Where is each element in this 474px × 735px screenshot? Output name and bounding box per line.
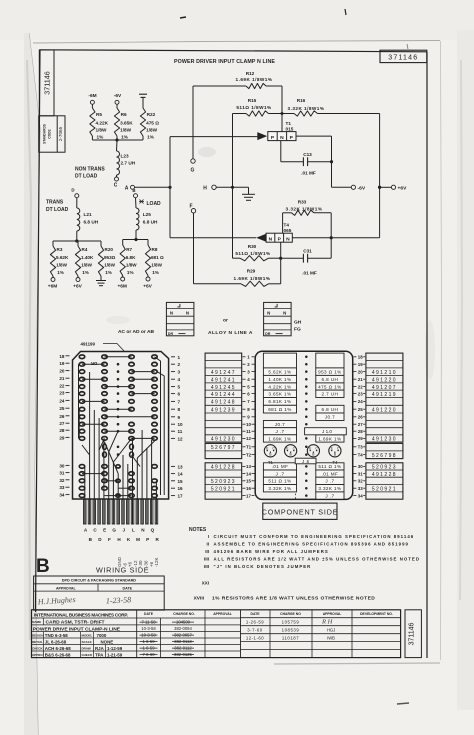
svg-text:Q: Q	[151, 528, 155, 533]
terminal symbol above R22	[139, 93, 147, 95]
component value box left 4.22K 1%	[263, 383, 296, 390]
component board transistor cans	[264, 445, 276, 457]
svg-text:520921: 520921	[211, 486, 236, 492]
part number table B	[366, 353, 403, 442]
svg-text:.01 MF: .01 MF	[322, 471, 339, 476]
svg-text:26: 26	[358, 415, 363, 420]
svg-text:R12: R12	[246, 71, 255, 76]
svg-text:681 Ω: 681 Ω	[151, 255, 164, 260]
svg-text:19: 19	[358, 362, 363, 367]
left loop wire vertical	[169, 137, 171, 238]
wiring board pads column 4	[129, 355, 134, 359]
svg-text:2.7 UH: 2.7 UH	[121, 161, 136, 166]
svg-text:-12K: -12K	[154, 557, 159, 567]
svg-text:POWER DRIVE INPUT CLAMP-N LINE: POWER DRIVE INPUT CLAMP-N LINE	[33, 626, 121, 632]
wiring board traces horizontal	[105, 356, 132, 358]
svg-text:32: 32	[358, 479, 363, 484]
svg-text:16: 16	[178, 486, 184, 491]
svg-text:NAME: NAME	[32, 620, 41, 624]
svg-text:M: M	[136, 537, 140, 542]
svg-text:33: 33	[358, 486, 363, 491]
svg-text:DESIGN: DESIGN	[32, 634, 44, 638]
svg-text:+6V: +6V	[73, 284, 82, 290]
svg-text:.01 MF: .01 MF	[272, 464, 289, 469]
component value box J 1.0 wide	[305, 428, 347, 435]
wire F down to R29	[193, 213, 195, 284]
svg-text:T4: T4	[284, 223, 290, 228]
svg-text:WIRING SIDE: WIRING SIDE	[96, 566, 149, 575]
svg-text:DATE: DATE	[123, 586, 133, 590]
svg-text:1/8W: 1/8W	[146, 128, 158, 133]
resistor R4	[77, 241, 79, 246]
svg-text:IIII: IIII	[204, 564, 209, 569]
svg-text:J: J	[122, 528, 125, 533]
junction C13 collector	[330, 160, 333, 163]
drawing number box 371146 vertical	[39, 50, 54, 116]
svg-text:1%: 1%	[152, 270, 159, 275]
wire C13 to collector line	[308, 161, 332, 163]
svg-text:J0.7: J0.7	[275, 422, 285, 427]
ground near H	[248, 187, 250, 194]
svg-text:13: 13	[178, 464, 184, 469]
legend box right	[264, 302, 292, 335]
component board centre dots	[305, 356, 308, 359]
svg-text:31: 31	[358, 471, 363, 476]
svg-text:1/8W: 1/8W	[96, 128, 108, 133]
svg-text:6.81K 1%: 6.81K 1%	[268, 399, 291, 404]
svg-text:8: 8	[178, 407, 181, 412]
svg-text:SCALE: SCALE	[82, 640, 92, 644]
wiring board pads column 5	[152, 355, 157, 359]
svg-text:1-26-59: 1-26-59	[246, 620, 264, 625]
wiring board diagonal traces	[82, 431, 155, 473]
node C open terminal	[116, 175, 118, 177]
svg-text:B: B	[36, 556, 50, 577]
svg-text:5.62K 1%: 5.62K 1%	[268, 369, 291, 374]
svg-text:N: N	[283, 311, 286, 316]
svg-text:24: 24	[59, 398, 65, 403]
svg-text:J .7: J .7	[275, 429, 284, 434]
svg-text:015: 015	[286, 127, 294, 132]
svg-text:065: 065	[284, 228, 292, 233]
svg-text:L21: L21	[84, 212, 92, 217]
wiring board comb teeth	[84, 499, 87, 524]
svg-text:APPROVAL: APPROVAL	[56, 586, 77, 590]
svg-text:APPROVAL: APPROVAL	[213, 612, 232, 616]
inductor L23	[117, 151, 120, 175]
svg-text:N: N	[186, 311, 189, 316]
svg-text:520923: 520923	[211, 479, 236, 485]
drawing number box 371146 top right	[380, 50, 427, 62]
svg-text:12: 12	[178, 436, 184, 441]
svg-text:MODEL: MODEL	[82, 634, 93, 638]
svg-text:H: H	[203, 186, 207, 192]
svg-text:R3: R3	[57, 247, 63, 252]
standards code box	[39, 116, 65, 152]
svg-text:XVIII: XVIII	[194, 596, 205, 602]
component value box left J0.7	[263, 421, 296, 428]
svg-text:7000: 7000	[97, 633, 107, 638]
svg-text:1.40K: 1.40K	[81, 255, 94, 260]
svg-text:1/8W: 1/8W	[126, 263, 137, 268]
svg-text:25: 25	[358, 407, 363, 412]
svg-text:475 Ω 1%: 475 Ω 1%	[318, 384, 342, 389]
wire L25 to bus	[135, 230, 137, 240]
svg-text:34: 34	[59, 493, 65, 498]
svg-text:29: 29	[59, 435, 65, 440]
wire loop to T1 emitter	[170, 136, 257, 138]
wiring board pads column 2	[102, 355, 107, 359]
terminal +6V under R4	[77, 276, 79, 278]
wire R33 left down to T4 base	[282, 213, 284, 233]
svg-text:TND 6-3-58: TND 6-3-58	[45, 633, 68, 638]
svg-text:DETAIL: DETAIL	[32, 640, 43, 644]
component value box left 5.62K 1%	[263, 368, 296, 376]
component value box lower left J .7	[263, 470, 296, 477]
svg-text:CODE: CODE	[48, 129, 52, 138]
svg-text:1/8W: 1/8W	[104, 263, 115, 268]
revision table column lines	[269, 610, 271, 658]
svg-text:T4: T4	[332, 460, 338, 465]
svg-text:-6M: -6M	[88, 93, 96, 99]
svg-text:1%: 1%	[127, 270, 134, 275]
svg-text:27: 27	[358, 422, 363, 427]
svg-text:9: 9	[178, 415, 181, 420]
svg-text:CHARGE NO.: CHARGE NO.	[173, 612, 195, 616]
svg-text:R15: R15	[248, 98, 257, 103]
svg-text:30: 30	[358, 464, 363, 469]
svg-text:7: 7	[178, 399, 181, 404]
svg-text:6.8 UH: 6.8 UH	[84, 220, 99, 225]
scan smudges	[198, 147, 216, 157]
svg-text:G: G	[191, 168, 195, 174]
component value box left J .7	[263, 428, 296, 435]
svg-text:34: 34	[358, 493, 363, 498]
svg-text:491248: 491248	[211, 400, 236, 406]
svg-text:DT LOAD: DT LOAD	[46, 207, 69, 213]
wire T1 base to C13	[280, 141, 282, 162]
svg-text:526797: 526797	[211, 445, 236, 451]
title block row lines left	[32, 617, 241, 619]
drawing number vertical box	[405, 610, 421, 658]
svg-text:.01 MF: .01 MF	[302, 271, 317, 276]
svg-text:511 Ω 1%: 511 Ω 1%	[268, 479, 291, 484]
svg-text:T1: T1	[246, 445, 252, 450]
svg-text:CHECK: CHECK	[32, 647, 44, 651]
terminal +6M under R3	[52, 276, 54, 278]
junction	[75, 239, 78, 242]
component board jumper channel dashed	[295, 464, 297, 499]
svg-text:N: N	[267, 311, 270, 316]
svg-text:J .7: J .7	[275, 471, 284, 476]
svg-text:491247: 491247	[211, 370, 236, 376]
svg-text:FG: FG	[294, 326, 301, 332]
svg-text:R16: R16	[297, 98, 306, 103]
svg-text:INTERNATIONAL BUSINESS MACHINE: INTERNATIONAL BUSINESS MACHINES CORP.	[34, 612, 128, 617]
svg-text:491210: 491210	[372, 370, 397, 376]
border top line	[40, 50, 428, 52]
svg-text:APPROVAL: APPROVAL	[323, 612, 342, 616]
wire R16 to right loop	[318, 113, 380, 115]
component value box right 1.69K 1%	[316, 435, 344, 442]
svg-text:26: 26	[59, 414, 65, 419]
svg-text:ALL RESISTORS ARE 1/2 WATT AND: ALL RESISTORS ARE 1/2 WATT AND ±5% UNLES…	[214, 557, 421, 562]
svg-text:1%: 1%	[105, 270, 112, 275]
junction T4 collector with R33	[330, 236, 333, 239]
component value box lower right J .7	[316, 477, 344, 484]
svg-text:L25: L25	[143, 212, 151, 217]
wire A to loop	[135, 186, 171, 188]
svg-text:475 Ω: 475 Ω	[146, 121, 159, 126]
svg-text:1.69K 1/8W1%: 1.69K 1/8W1%	[236, 77, 273, 82]
svg-text:NON TRANS: NON TRANS	[75, 167, 105, 173]
svg-text:3.65K 1%: 3.65K 1%	[268, 392, 291, 397]
svg-text:E: E	[103, 528, 106, 533]
svg-text:DRAW: DRAW	[82, 647, 91, 651]
svg-text:R22: R22	[147, 112, 156, 117]
component value box lower right J .7	[316, 492, 344, 499]
svg-text:A: A	[125, 185, 129, 191]
svg-text:+6V: +6V	[398, 186, 408, 192]
svg-text:-6V: -6V	[358, 186, 366, 192]
svg-text:3.65K: 3.65K	[120, 121, 133, 126]
wire T4 base down	[280, 242, 282, 258]
wiring board trace vertical left	[78, 364, 80, 438]
component value box right 6.8 UH	[316, 405, 344, 413]
svg-text:NONE: NONE	[101, 639, 114, 644]
svg-text:T3: T3	[358, 445, 364, 450]
torn left paper edge	[29, 33, 40, 735]
svg-text:1/8W: 1/8W	[81, 263, 92, 268]
svg-text:1%: 1%	[82, 270, 89, 275]
svg-text:1%: 1%	[57, 270, 64, 275]
border right line	[426, 52, 428, 658]
svg-text:371146: 371146	[388, 54, 418, 61]
bus under L21	[53, 240, 101, 242]
svg-text:R H: R H	[321, 619, 333, 626]
border left line	[36, 50, 41, 612]
resistor R7	[122, 240, 124, 246]
wire H to ground	[216, 186, 248, 188]
svg-text:DR: DR	[91, 361, 97, 366]
svg-text:24: 24	[358, 399, 363, 404]
svg-text:3.32K 1%: 3.32K 1%	[268, 486, 291, 491]
svg-text:491230: 491230	[211, 437, 236, 443]
svg-text:NOTES: NOTES	[189, 527, 207, 533]
wire to R22	[142, 97, 144, 108]
wiring board pads column 1	[79, 355, 84, 359]
wire -6M to R5	[91, 104, 93, 108]
component value box right 953 Ω 1%	[316, 368, 344, 376]
component value box right J0.7	[316, 413, 344, 421]
svg-text:11: 11	[246, 429, 251, 434]
svg-text:491207: 491207	[372, 385, 397, 391]
wiring board right pin numbers 1-17	[171, 356, 175, 358]
wiring board trace bundle to comb teeth	[84, 466, 86, 524]
svg-text:520921: 520921	[372, 486, 397, 492]
svg-text:12-1-60: 12-1-60	[246, 636, 264, 641]
svg-text:JL 6-26-68: JL 6-26-68	[45, 639, 67, 644]
svg-text:20: 20	[358, 369, 363, 374]
junction R30 T4 base C31	[279, 257, 282, 260]
terminal -6V	[351, 185, 355, 189]
component value box right 2.7 UH	[316, 390, 344, 397]
svg-text:N: N	[269, 237, 273, 243]
wiring board outline	[73, 352, 169, 500]
svg-text:R8: R8	[152, 247, 158, 252]
svg-text:T2: T2	[246, 452, 252, 457]
svg-text:14: 14	[246, 471, 251, 476]
svg-text:R33: R33	[298, 200, 307, 205]
svg-text:J 1.0: J 1.0	[322, 429, 332, 434]
component board right pin numbers	[353, 356, 356, 358]
svg-text:382-0094: 382-0094	[174, 626, 192, 631]
svg-text:J .6: J .6	[302, 459, 310, 464]
svg-text:+6M: +6M	[48, 284, 57, 290]
svg-text:N: N	[170, 311, 173, 316]
svg-text:J0.7: J0.7	[325, 415, 335, 420]
svg-text:30: 30	[59, 463, 65, 468]
svg-text:19: 19	[59, 361, 65, 366]
svg-text:491239: 491239	[211, 407, 236, 413]
svg-text:6.8 UH: 6.8 UH	[143, 220, 158, 225]
svg-text:105759: 105759	[282, 620, 300, 625]
label AC LOAD with arrow glyph	[139, 200, 144, 204]
svg-text:1%: 1%	[147, 135, 155, 140]
svg-text:491244: 491244	[211, 392, 236, 398]
svg-text:25: 25	[59, 406, 65, 411]
svg-text:1.69K 1/8W1%: 1.69K 1/8W1%	[234, 276, 271, 281]
component value box right 6.8 UH	[316, 375, 344, 383]
component value box lower left .01 MF	[263, 463, 296, 470]
svg-text:1/8W: 1/8W	[151, 263, 162, 268]
svg-text:C31: C31	[303, 249, 312, 254]
svg-text:371146: 371146	[409, 622, 416, 645]
wire to +6V terminal	[380, 186, 392, 188]
resistor R8	[147, 240, 149, 246]
junction at loop	[168, 186, 171, 189]
svg-text:10: 10	[246, 422, 251, 427]
svg-text:491241: 491241	[211, 377, 236, 383]
svg-text:1: 1	[178, 355, 181, 360]
title block outline	[32, 610, 401, 658]
svg-text:R5: R5	[96, 112, 102, 117]
svg-text:3-7-60: 3-7-60	[247, 628, 263, 633]
wire R15 left vertical to H and R30	[232, 114, 234, 259]
svg-text:16: 16	[246, 486, 251, 491]
shadow line under title block	[274, 663, 440, 664]
svg-text:110187: 110187	[282, 636, 299, 641]
svg-text:17: 17	[246, 493, 251, 498]
svg-text:DATE: DATE	[251, 612, 261, 616]
svg-text:T1: T1	[268, 460, 274, 465]
svg-text:ACH 6-26-68: ACH 6-26-68	[45, 646, 71, 651]
wire loop to T4 emitter	[170, 237, 256, 239]
wire R12 left down to G	[192, 86, 194, 159]
svg-text:28: 28	[358, 429, 363, 434]
svg-text:II: II	[206, 542, 209, 547]
right scan edge line	[441, 41, 442, 660]
component value box right blank	[316, 353, 344, 368]
svg-text:1% RESISTORS ARE 1/8 WATT UNLE: 1% RESISTORS ARE 1/8 WATT UNLESS OTHERWI…	[212, 596, 375, 602]
svg-text:23: 23	[59, 391, 65, 396]
svg-text:491228: 491228	[372, 472, 397, 478]
svg-text:20: 20	[59, 369, 65, 374]
svg-text:5: 5	[178, 385, 181, 390]
svg-text:491220: 491220	[372, 407, 397, 413]
svg-text:R4: R4	[82, 247, 88, 252]
svg-text:ALLOY N LINE A: ALLOY N LINE A	[208, 330, 253, 336]
svg-text:STANDARDS: STANDARDS	[43, 124, 47, 144]
svg-text:+6M: +6M	[117, 283, 126, 289]
title block middle column lines	[136, 610, 138, 658]
svg-text:DR: DR	[168, 332, 174, 336]
svg-text:6.8 UH: 6.8 UH	[322, 377, 339, 382]
svg-text:1%: 1%	[121, 135, 129, 140]
svg-text:TRANS: TRANS	[46, 200, 64, 206]
svg-text:491296 BARE WIRE FOR ALL JUMPE: 491296 BARE WIRE FOR ALL JUMPERS	[214, 549, 329, 554]
svg-text:"J" IN BLOCK DENOTES JUMPER: "J" IN BLOCK DENOTES JUMPER	[214, 564, 312, 569]
svg-text:3: 3	[178, 370, 181, 375]
component value box left blank	[263, 353, 296, 368]
wire R29 right up to R30 junction	[280, 258, 282, 284]
transistor T1 emitter arrow	[257, 132, 267, 140]
svg-text:511 Ω 1%: 511 Ω 1%	[318, 464, 341, 469]
wire bus under R5 R6 R22	[91, 136, 93, 140]
svg-text:491228: 491228	[211, 465, 236, 471]
scan specks	[180, 17, 186, 18]
wire bus to L23	[116, 140, 119, 151]
svg-text:1-12-59: 1-12-59	[107, 646, 123, 651]
svg-text:P: P	[146, 537, 149, 542]
svg-text:511Ω 1/8W1%: 511Ω 1/8W1%	[236, 105, 272, 110]
component value box lower right .01 MF	[316, 470, 344, 477]
svg-text:14: 14	[178, 472, 184, 477]
component value box left 6.81K 1%	[263, 398, 296, 406]
svg-text:CHECK: CHECK	[82, 653, 94, 657]
svg-text:COMPONENT SIDE: COMPONENT SIDE	[262, 507, 339, 516]
component value box lower right 511 Ω 1%	[316, 463, 344, 470]
wire T4 collector to loop	[292, 237, 379, 239]
node G open terminal	[191, 159, 195, 163]
resistor R5	[90, 108, 95, 136]
component value box left 3.65K 1%	[263, 390, 296, 397]
svg-text:N: N	[286, 237, 290, 243]
terminal +6V	[391, 185, 395, 189]
svg-text:11: 11	[178, 429, 183, 434]
component value box left 1.69K 1%	[263, 435, 296, 442]
terminal +6M under R7	[122, 276, 124, 278]
wire B to L25	[135, 198, 138, 208]
svg-text:CHARGE NO: CHARGE NO	[280, 612, 301, 616]
svg-text:HGJ: HGJ	[327, 628, 335, 633]
svg-text:491219: 491219	[372, 392, 397, 398]
component value box lower left 511 Ω 1%	[263, 477, 296, 484]
svg-text:R30: R30	[248, 244, 257, 249]
right loop wire down	[379, 114, 381, 238]
svg-text:D: D	[71, 188, 74, 193]
svg-text:DPD CIRCUIT & PACKAGING STANDA: DPD CIRCUIT & PACKAGING STANDARD	[62, 579, 137, 583]
svg-text:526798: 526798	[372, 453, 397, 459]
inductor L21	[77, 208, 80, 231]
svg-text:DATE: DATE	[144, 612, 154, 616]
svg-text:1.69K 1%: 1.69K 1%	[318, 436, 341, 441]
svg-text:T4: T4	[358, 452, 364, 457]
svg-text:LOAD: LOAD	[147, 201, 162, 207]
wiring board traces vertical right	[155, 357, 165, 495]
svg-text:953Ω: 953Ω	[104, 255, 116, 260]
svg-text:1-21-59: 1-21-59	[107, 652, 123, 657]
